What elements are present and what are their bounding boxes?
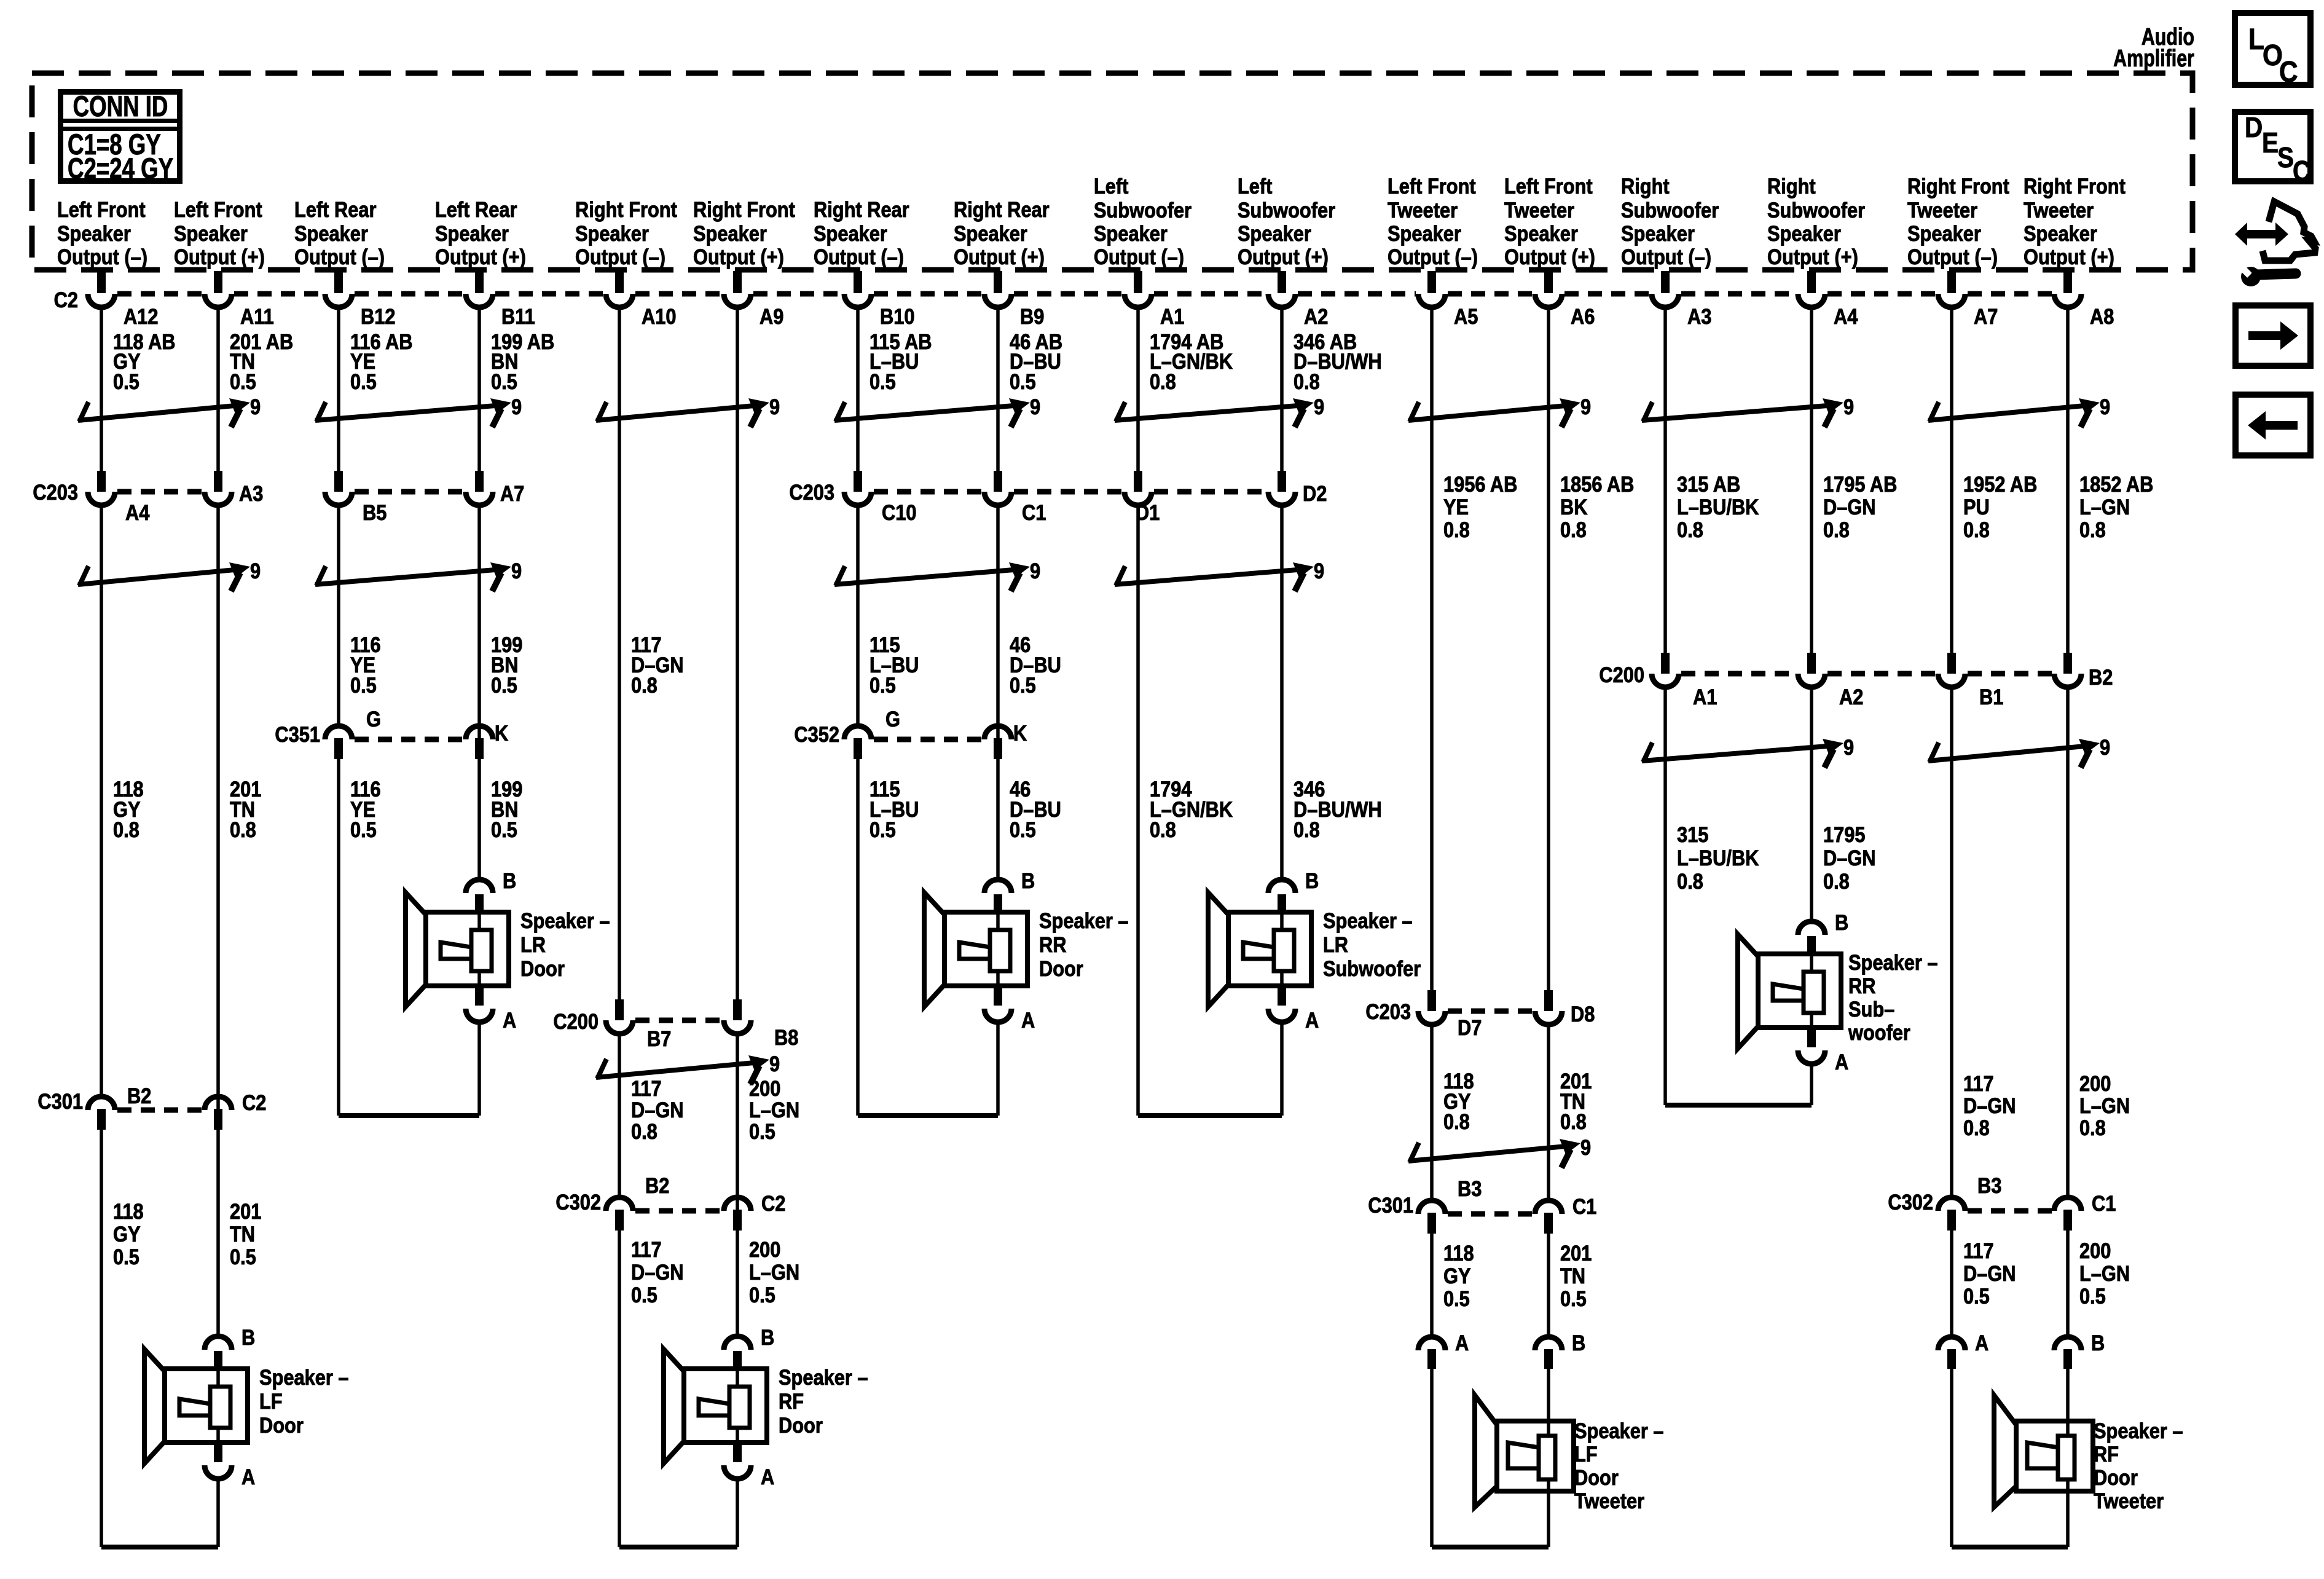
speaker RF Door <box>664 1325 868 1489</box>
svg-text:A1: A1 <box>1693 685 1717 709</box>
svg-text:S: S <box>2277 143 2294 174</box>
svg-text:L–BU/BK: L–BU/BK <box>1677 846 1759 870</box>
connector C301 dashes (left) <box>117 1108 202 1113</box>
svg-text:0.5: 0.5 <box>631 1283 658 1307</box>
svg-text:D–GN: D–GN <box>631 1260 684 1284</box>
svg-text:9: 9 <box>250 559 261 583</box>
wire label 117 D-GN col5 lower <box>631 1076 684 1143</box>
wire label 118 GY lower col1 <box>113 777 144 841</box>
svg-text:RF: RF <box>2094 1442 2119 1466</box>
wire label 201 AB TN col2 <box>230 329 293 393</box>
svg-text:Speaker –: Speaker – <box>1039 908 1128 932</box>
svg-text:A5: A5 <box>1454 304 1478 328</box>
wire loop RF door bottom <box>619 1480 737 1547</box>
wire 1795 D-GN col14 <box>1810 305 1813 921</box>
svg-text:B: B <box>1835 910 1848 934</box>
pin label col6: Right Front Speaker Output (+) <box>693 197 795 269</box>
svg-text:0.8: 0.8 <box>631 673 658 697</box>
svg-text:0.5: 0.5 <box>1010 673 1036 697</box>
svg-text:Subwoofer: Subwoofer <box>1621 198 1719 222</box>
pin label col14: Right Subwoofer Speaker Output (+) <box>1767 174 1865 269</box>
svg-text:9: 9 <box>1843 735 1854 759</box>
wire label 1956 AB YE col11 <box>1443 472 1517 541</box>
pin label col9: Left Subwoofer Speaker Output (–) <box>1094 174 1191 269</box>
svg-text:Right Front: Right Front <box>693 197 795 221</box>
wire label 200 L-GN col16 bottom <box>2079 1238 2130 1308</box>
svg-text:Left Front: Left Front <box>1504 174 1593 198</box>
connector C2 pin A12 <box>88 294 158 328</box>
svg-text:117: 117 <box>1963 1071 1994 1095</box>
connector C352 pin K <box>984 721 1027 759</box>
svg-text:D–GN: D–GN <box>1823 846 1876 870</box>
connector C352 pin G <box>844 707 900 759</box>
svg-text:9: 9 <box>2100 395 2110 419</box>
svg-text:G: G <box>885 707 900 731</box>
pin label col2: Left Front Speaker Output (+) <box>174 197 265 269</box>
wire label 118 GY col1 bottom <box>113 1199 144 1269</box>
connector C352 dashes <box>874 737 982 742</box>
svg-text:Right Front: Right Front <box>575 197 677 221</box>
svg-text:0.8: 0.8 <box>1963 1116 1990 1140</box>
connector C301 label (left) <box>37 1089 83 1113</box>
svg-text:0.5: 0.5 <box>491 817 517 841</box>
svg-text:0.8: 0.8 <box>113 817 139 841</box>
svg-text:A3: A3 <box>1687 304 1711 328</box>
svg-text:C2=24 GY: C2=24 GY <box>68 152 173 184</box>
svg-text:A: A <box>1305 1008 1319 1032</box>
pin label col8: Right Rear Speaker Output (+) <box>954 197 1050 269</box>
wire label 200 L-GN col6 lower <box>749 1076 799 1143</box>
svg-text:A4: A4 <box>125 500 150 524</box>
svg-text:B2: B2 <box>127 1084 151 1108</box>
amp pin stub col7 <box>854 271 862 293</box>
svg-text:Tweeter: Tweeter <box>2024 198 2094 222</box>
wire label 346 D–BU/WH lower col10 <box>1294 777 1382 841</box>
svg-text:Left Front: Left Front <box>1388 174 1476 198</box>
pin label col5: Right Front Speaker Output (–) <box>575 197 677 269</box>
svg-text:A7: A7 <box>500 481 524 505</box>
wire label 117 D-GN col5 bottom <box>631 1237 684 1307</box>
svg-text:B9: B9 <box>1020 304 1044 328</box>
connector C301 pin B2 <box>88 1084 151 1130</box>
svg-text:Output (+): Output (+) <box>2024 245 2114 269</box>
wire label 117 D–GN mid col5 <box>631 632 684 697</box>
svg-text:Speaker: Speaker <box>575 221 649 245</box>
svg-text:Tweeter: Tweeter <box>1907 198 1977 222</box>
wire 1794 L-GN/BK col9 <box>1136 305 1140 1116</box>
svg-text:0.5: 0.5 <box>2079 1284 2106 1308</box>
wire label 199 AB BN col4 <box>491 329 554 393</box>
wire label 116 AB YE col3 <box>350 329 413 393</box>
connector C203 dashes pair 1-2 <box>117 489 202 495</box>
svg-text:Output (–): Output (–) <box>1388 245 1478 269</box>
speaker LF Door Tweeter <box>1418 1331 1663 1547</box>
svg-text:C301: C301 <box>37 1089 83 1113</box>
svg-text:1856 AB: 1856 AB <box>1560 472 1634 496</box>
svg-text:0.8: 0.8 <box>230 817 256 841</box>
svg-text:9: 9 <box>250 395 261 419</box>
svg-text:Speaker: Speaker <box>1907 221 1981 245</box>
connector C351 label <box>275 722 320 746</box>
svg-text:Left Rear: Left Rear <box>435 197 517 221</box>
svg-text:Speaker –: Speaker – <box>520 908 610 932</box>
connector C2 pin B10 <box>844 294 914 328</box>
connector C351 dashes <box>355 737 463 742</box>
connector C200 pin A2 <box>1798 653 1863 709</box>
svg-text:C302: C302 <box>555 1190 601 1214</box>
wire label 1856 AB BK col12 <box>1560 472 1634 541</box>
wire 1852 L-GN / 200 L-GN col16 <box>2066 305 2070 1338</box>
amp pin stub col6 <box>733 271 742 293</box>
amp pin stub col13 <box>1661 271 1670 293</box>
connector C200 label (right) <box>1599 663 1644 687</box>
connector C203 label (left) <box>33 480 78 504</box>
connector C203 dashes cols 7-10 <box>874 489 1266 495</box>
twisted pair note 9 (cols 13-14) <box>1642 735 1854 768</box>
connector C203 dashes pair 3-4 <box>355 489 463 495</box>
svg-text:Speaker: Speaker <box>1094 221 1168 245</box>
amp pin stub col9 <box>1134 271 1142 293</box>
svg-text:0.5: 0.5 <box>113 1245 139 1269</box>
svg-text:TN: TN <box>230 1222 255 1246</box>
svg-text:Output (+): Output (+) <box>1767 245 1858 269</box>
wire label 116 YE mid col3 <box>350 632 381 697</box>
svg-text:Speaker –: Speaker – <box>259 1365 348 1389</box>
connector C203 pin D7 <box>1418 990 1482 1039</box>
wire loop RR subwoofer bottom <box>1665 1065 1812 1105</box>
svg-text:0.8: 0.8 <box>1294 817 1320 841</box>
connector C2 pin A2 <box>1268 294 1328 328</box>
svg-text:B2: B2 <box>645 1173 669 1197</box>
twisted pair note 9 (cols 7-8) <box>834 395 1040 427</box>
svg-text:A: A <box>241 1465 255 1489</box>
connector C203 pin D1 <box>1125 471 1160 524</box>
wire 1952 PU / 117 D-GN col15 <box>1950 305 1953 1338</box>
svg-text:L–GN: L–GN <box>749 1098 799 1122</box>
svg-text:B8: B8 <box>774 1025 798 1049</box>
svg-text:Speaker: Speaker <box>1504 221 1578 245</box>
svg-text:A7: A7 <box>1974 304 1998 328</box>
speaker RR Door <box>924 868 1128 1032</box>
svg-text:Subwoofer: Subwoofer <box>1323 956 1421 980</box>
wire label 201 TN col12 bottom <box>1560 1241 1592 1310</box>
svg-text:A1: A1 <box>1160 304 1184 328</box>
svg-text:0.5: 0.5 <box>230 369 256 393</box>
pin label col11: Left Front Tweeter Speaker Output (–) <box>1388 174 1478 269</box>
connector C200 pin A1 <box>1652 653 1717 709</box>
svg-text:C200: C200 <box>553 1009 599 1033</box>
svg-text:A6: A6 <box>1571 304 1595 328</box>
svg-text:CONN ID: CONN ID <box>73 90 168 122</box>
wire label 116 YE lower col3 <box>350 777 381 841</box>
svg-text:B: B <box>1572 1331 1585 1355</box>
svg-text:0.5: 0.5 <box>870 369 896 393</box>
svg-text:200: 200 <box>749 1076 780 1100</box>
icon vehicle with double arrow and wrench <box>2235 202 2315 286</box>
svg-text:Left Rear: Left Rear <box>294 197 377 221</box>
svg-text:0.8: 0.8 <box>2079 518 2106 541</box>
pin label col3: Left Rear Speaker Output (–) <box>294 197 385 269</box>
svg-text:C2: C2 <box>242 1090 266 1114</box>
svg-text:D–GN: D–GN <box>631 1098 684 1122</box>
svg-text:Output (–): Output (–) <box>575 245 665 269</box>
svg-text:Right: Right <box>1767 174 1816 198</box>
svg-text:L: L <box>2248 22 2264 55</box>
connector C2 pin A10 <box>606 294 676 328</box>
svg-text:C10: C10 <box>882 500 916 524</box>
pin label col1: Left Front Speaker Output (–) <box>57 197 147 269</box>
connector C2 pin A11 <box>205 294 274 328</box>
audio amplifier box <box>32 73 2192 270</box>
wire label 1794 AB L–GN/BK col9 <box>1150 329 1233 393</box>
svg-text:C351: C351 <box>275 722 320 746</box>
svg-text:A2: A2 <box>1304 304 1328 328</box>
svg-text:BK: BK <box>1560 495 1588 519</box>
svg-text:Speaker: Speaker <box>2024 221 2097 245</box>
amp pin stub col15 <box>1947 271 1956 293</box>
svg-text:0.5: 0.5 <box>491 369 517 393</box>
svg-text:Speaker: Speaker <box>174 221 248 245</box>
svg-text:Output (+): Output (+) <box>1238 245 1329 269</box>
connector C301 dashes (tweeter) <box>1448 1211 1533 1217</box>
svg-text:B: B <box>241 1325 255 1349</box>
wire label 1952 AB PU col15 <box>1963 472 2037 541</box>
wire label 199 BN lower col4 <box>491 777 522 841</box>
wire loop LR door bottom <box>339 1023 479 1116</box>
connector C2 pin B9 <box>984 294 1044 328</box>
connector C203 pin B5 <box>325 471 387 524</box>
svg-text:RF: RF <box>779 1389 804 1413</box>
connector C203 pin D8 <box>1535 990 1595 1026</box>
connector C301 pin C2 <box>205 1090 266 1130</box>
svg-text:L–GN: L–GN <box>2079 495 2130 519</box>
audio amplifier label <box>2113 23 2194 71</box>
speaker LR Door <box>406 868 610 1032</box>
connector C2 dashed line <box>117 291 2052 297</box>
svg-text:Speaker: Speaker <box>1621 221 1695 245</box>
svg-text:LF: LF <box>259 1389 283 1413</box>
amp pin stub col3 <box>334 271 343 293</box>
svg-text:D–GN: D–GN <box>1823 495 1876 519</box>
connector C302 pin B2 <box>606 1173 669 1231</box>
connector C200 label (mid) <box>553 1009 599 1033</box>
svg-text:9: 9 <box>1314 395 1324 419</box>
connector C302 dashes (mid) <box>635 1208 721 1214</box>
svg-text:D: D <box>2245 112 2263 144</box>
svg-text:0.5: 0.5 <box>1010 369 1036 393</box>
svg-text:B12: B12 <box>361 304 395 328</box>
svg-text:9: 9 <box>769 395 780 419</box>
svg-text:C: C <box>2293 156 2310 187</box>
svg-text:0.5: 0.5 <box>350 817 377 841</box>
svg-text:Speaker: Speaker <box>57 221 131 245</box>
svg-text:Left Front: Left Front <box>57 197 146 221</box>
svg-text:RR: RR <box>1848 974 1876 998</box>
svg-text:0.8: 0.8 <box>2079 1116 2106 1140</box>
CONN ID table <box>61 90 180 184</box>
svg-text:Output (–): Output (–) <box>1907 245 1998 269</box>
svg-text:315: 315 <box>1677 822 1708 846</box>
svg-text:GY: GY <box>1443 1264 1471 1288</box>
connector C302 label (right) <box>1888 1190 1933 1214</box>
wire label 118 GY col11 bottom <box>1443 1241 1474 1310</box>
svg-text:Speaker: Speaker <box>435 221 509 245</box>
amp pin stub col14 <box>1807 271 1816 293</box>
twisted pair note 9 (cols 15-16) <box>1928 395 2110 427</box>
svg-text:0.8: 0.8 <box>1823 518 1850 541</box>
svg-text:201: 201 <box>1560 1241 1592 1265</box>
svg-text:A11: A11 <box>240 304 274 328</box>
connector C200 dashes (mid) <box>635 1018 721 1023</box>
svg-text:Door: Door <box>259 1413 304 1437</box>
twisted pair note 9 (cols 1-2) <box>78 395 261 427</box>
svg-text:A2: A2 <box>1839 685 1863 709</box>
wire 201 TN col2 <box>216 305 220 1336</box>
svg-text:D2: D2 <box>1303 481 1327 505</box>
svg-text:PU: PU <box>1963 495 1990 519</box>
svg-text:L–GN: L–GN <box>2079 1261 2130 1285</box>
svg-text:D–GN: D–GN <box>1963 1093 2016 1117</box>
wire loop LR subwoofer bottom <box>1138 1023 1282 1116</box>
svg-text:A: A <box>1021 1008 1035 1032</box>
svg-text:B11: B11 <box>501 304 535 328</box>
svg-text:K: K <box>1013 721 1027 745</box>
svg-text:C200: C200 <box>1599 663 1644 687</box>
svg-text:Output (+): Output (+) <box>174 245 265 269</box>
wire 1956 YE / 118 GY col11 <box>1430 305 1434 1338</box>
amp pin stub col1 <box>97 271 106 293</box>
wire label 201 TN col12 <box>1560 1069 1592 1133</box>
svg-text:C1: C1 <box>1022 500 1046 524</box>
svg-text:Subwoofer: Subwoofer <box>1094 198 1191 222</box>
svg-text:Right Rear: Right Rear <box>954 197 1050 221</box>
svg-text:Speaker: Speaker <box>693 221 767 245</box>
svg-text:A: A <box>503 1008 516 1032</box>
svg-text:TN: TN <box>1560 1264 1585 1288</box>
svg-text:9: 9 <box>1030 395 1040 419</box>
svg-text:0.5: 0.5 <box>1443 1286 1470 1310</box>
svg-text:Left: Left <box>1094 174 1128 198</box>
svg-text:B7: B7 <box>647 1026 671 1050</box>
svg-text:Tweeter: Tweeter <box>1388 198 1458 222</box>
wire label 315 L-BU/BK col13 <box>1677 822 1759 893</box>
svg-text:0.5: 0.5 <box>1010 817 1036 841</box>
wire label 1795 AB D–GN col14 <box>1823 472 1897 541</box>
connector C2 pin B11 <box>466 294 535 328</box>
svg-text:Output (–): Output (–) <box>57 245 147 269</box>
svg-text:Output (+): Output (+) <box>1504 245 1595 269</box>
svg-text:woofer: woofer <box>1848 1020 1910 1044</box>
svg-text:Amplifier: Amplifier <box>2113 45 2194 71</box>
svg-text:C301: C301 <box>1368 1193 1413 1217</box>
amp pin stub col16 <box>2063 271 2072 293</box>
svg-text:B5: B5 <box>363 500 387 524</box>
wire 346 D-BU/WH col10 <box>1280 305 1284 880</box>
wire loop LF door bottom <box>101 1480 218 1547</box>
connector C200 pin B1 <box>1938 653 2003 709</box>
svg-text:RR: RR <box>1039 932 1067 956</box>
svg-text:D7: D7 <box>1458 1015 1482 1039</box>
wire 115 L-BU col7 <box>856 305 860 1116</box>
svg-text:9: 9 <box>1580 395 1591 419</box>
svg-text:0.8: 0.8 <box>1677 869 1703 893</box>
svg-text:LR: LR <box>520 932 546 956</box>
connector C2 label <box>54 288 78 312</box>
svg-text:B: B <box>1021 868 1035 892</box>
twisted pair note 9 row2 (cols 9-10) <box>1115 559 1324 591</box>
svg-text:0.8: 0.8 <box>1560 518 1587 541</box>
connector C203 pin A7 <box>466 471 524 505</box>
connector C2 pin A4 <box>1798 294 1858 328</box>
svg-text:B10: B10 <box>880 304 914 328</box>
svg-text:0.5: 0.5 <box>113 369 139 393</box>
connector C203 pin A4 <box>88 471 150 524</box>
svg-text:C203: C203 <box>789 480 834 504</box>
svg-text:0.5: 0.5 <box>1560 1286 1587 1310</box>
wire 46 D-BU col8 <box>996 305 1000 880</box>
svg-text:Right: Right <box>1621 174 1670 198</box>
svg-text:Speaker: Speaker <box>294 221 368 245</box>
svg-text:Output (+): Output (+) <box>435 245 526 269</box>
svg-text:YE: YE <box>1443 495 1469 519</box>
svg-text:9: 9 <box>2100 735 2110 759</box>
svg-text:0.5: 0.5 <box>491 673 517 697</box>
svg-text:9: 9 <box>511 559 522 583</box>
connector C302 label (mid) <box>555 1190 601 1214</box>
connector C2 pin A5 <box>1418 294 1478 328</box>
connector C203 pin C10 <box>844 471 916 524</box>
pin label col13: Right Subwoofer Speaker Output (–) <box>1621 174 1719 269</box>
svg-text:Door: Door <box>520 956 565 980</box>
svg-text:200: 200 <box>2079 1071 2111 1095</box>
connector C301 pin C1 <box>1535 1194 1596 1234</box>
svg-text:C1: C1 <box>2092 1191 2116 1215</box>
svg-text:E: E <box>2262 128 2279 159</box>
svg-text:9: 9 <box>1580 1135 1591 1159</box>
svg-text:A4: A4 <box>1834 304 1858 328</box>
svg-text:Speaker –: Speaker – <box>2094 1419 2183 1443</box>
svg-text:9: 9 <box>1030 559 1040 583</box>
svg-text:A3: A3 <box>239 481 263 505</box>
svg-text:0.5: 0.5 <box>350 673 377 697</box>
wire label 1852 AB L–GN col16 <box>2079 472 2153 541</box>
svg-text:9: 9 <box>1314 559 1324 583</box>
svg-text:Speaker: Speaker <box>1767 221 1841 245</box>
icon arrow right box <box>2236 305 2310 366</box>
svg-text:9: 9 <box>769 1052 780 1076</box>
wire label 46 D–BU mid col8 <box>1010 632 1061 697</box>
svg-text:201: 201 <box>230 1199 261 1223</box>
svg-text:C203: C203 <box>33 480 78 504</box>
connector C302 dashes (right) <box>1968 1208 2052 1214</box>
svg-text:LR: LR <box>1323 932 1348 956</box>
svg-text:C: C <box>2279 55 2298 88</box>
connector C200 pin B8 <box>724 999 798 1049</box>
wire label 115 L–BU mid col7 <box>870 632 919 697</box>
svg-text:A: A <box>1975 1331 1988 1355</box>
svg-text:117: 117 <box>631 1076 662 1100</box>
svg-text:0.8: 0.8 <box>1443 1109 1470 1133</box>
svg-text:1956 AB: 1956 AB <box>1443 472 1517 496</box>
twisted pair note 9 row2 (cols 1-2) <box>78 559 261 591</box>
svg-text:A10: A10 <box>642 304 676 328</box>
connector C203 dashes (tweeter) <box>1448 1009 1533 1014</box>
svg-text:D–GN: D–GN <box>1963 1261 2016 1285</box>
amp pin stub col5 <box>615 271 624 293</box>
connector C2 pin A3 <box>1652 294 1711 328</box>
svg-text:Speaker –: Speaker – <box>1574 1419 1663 1443</box>
svg-text:Door: Door <box>779 1413 823 1437</box>
